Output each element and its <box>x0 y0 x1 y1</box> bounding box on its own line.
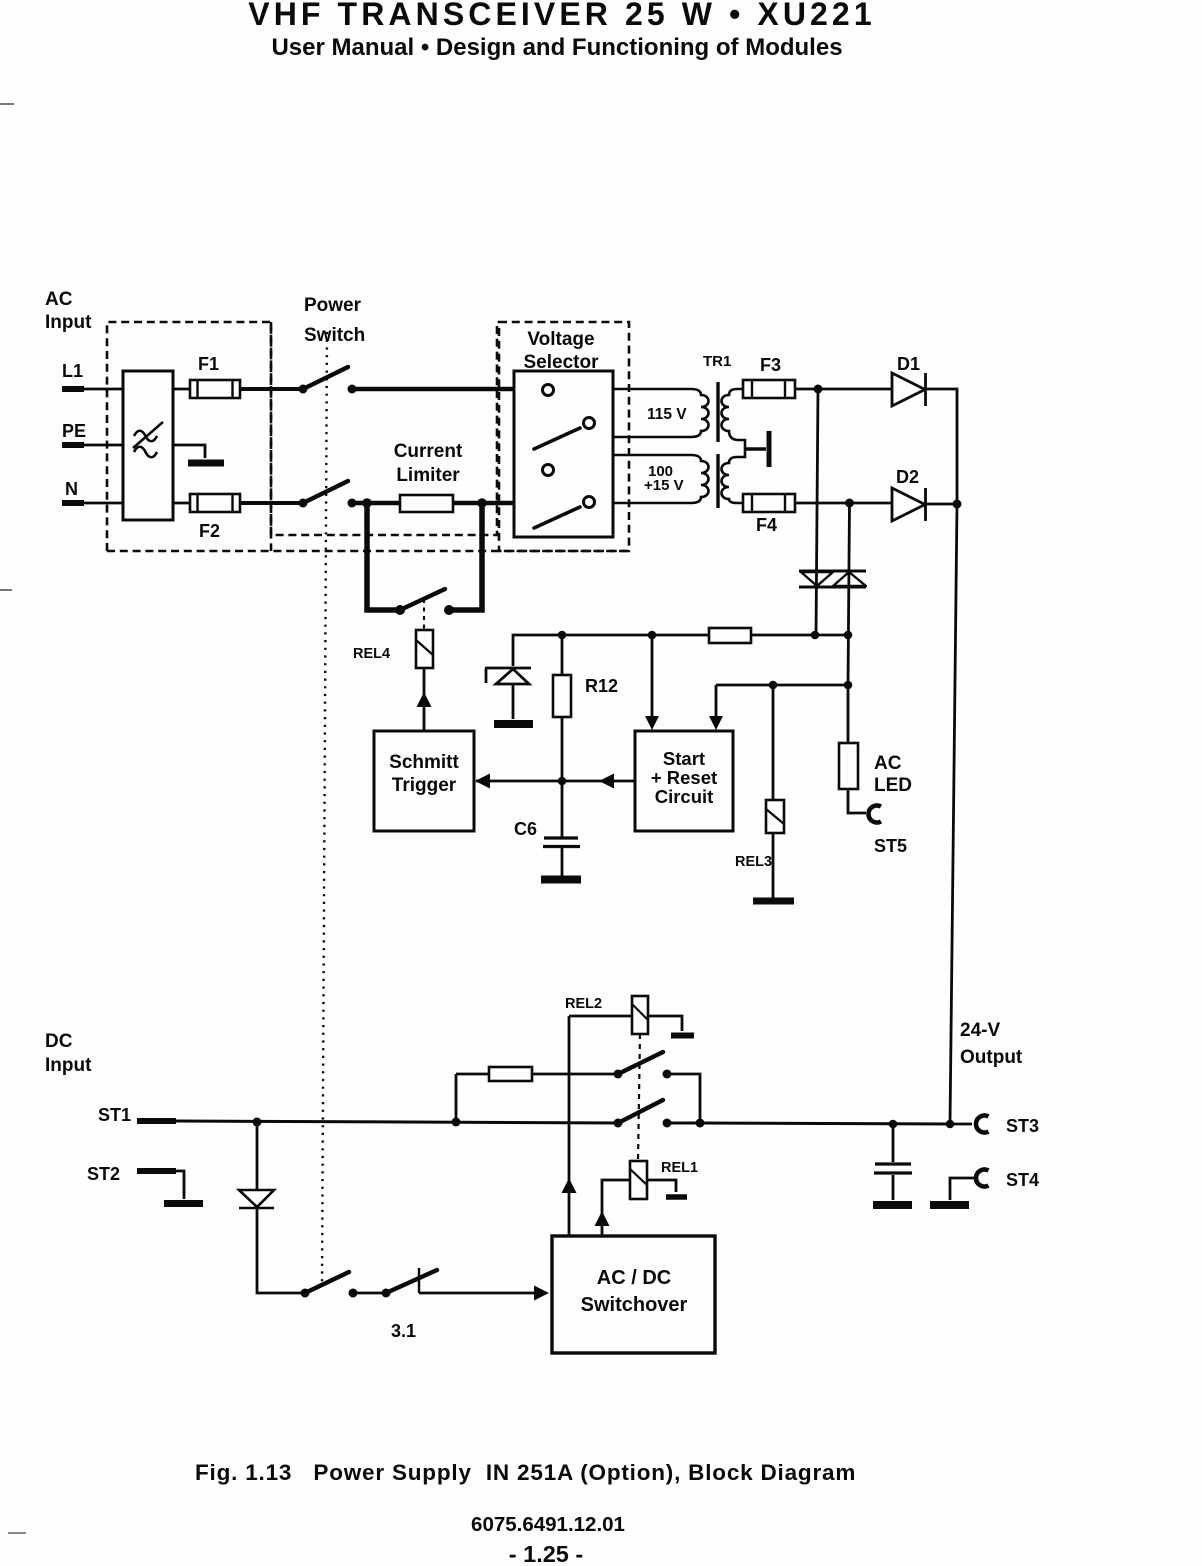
svg-text:115 V: 115 V <box>647 406 687 423</box>
svg-text:+15 V: +15 V <box>644 477 684 494</box>
svg-text:ST4: ST4 <box>1006 1170 1039 1190</box>
svg-text:F3: F3 <box>760 355 781 375</box>
svg-text:Input: Input <box>45 312 92 333</box>
svg-text:Switch: Switch <box>304 325 365 346</box>
svg-text:+ Reset: + Reset <box>651 767 717 788</box>
svg-text:N: N <box>65 479 78 499</box>
svg-text:Output: Output <box>960 1047 1023 1068</box>
svg-text:AC / DC: AC / DC <box>597 1267 671 1289</box>
svg-text:ST2: ST2 <box>87 1164 120 1184</box>
svg-text:Selector: Selector <box>524 352 600 373</box>
svg-text:Switchover: Switchover <box>581 1294 688 1316</box>
svg-text:Circuit: Circuit <box>655 786 714 807</box>
svg-text:ST1: ST1 <box>98 1105 131 1125</box>
svg-text:REL3: REL3 <box>735 854 772 870</box>
svg-text:F1: F1 <box>198 354 219 374</box>
svg-text:ST5: ST5 <box>874 836 907 856</box>
svg-text:Voltage: Voltage <box>527 329 594 350</box>
svg-text:REL2: REL2 <box>565 996 602 1012</box>
svg-text:TR1: TR1 <box>703 353 731 370</box>
svg-text:VHF TRANSCEIVER 25 W • XU221: VHF TRANSCEIVER 25 W • XU221 <box>248 0 875 32</box>
svg-text:AC: AC <box>45 289 73 310</box>
svg-text:6075.6491.12.01: 6075.6491.12.01 <box>471 1513 625 1536</box>
svg-text:24-V: 24-V <box>960 1020 1000 1041</box>
svg-text:DC: DC <box>45 1031 73 1052</box>
svg-text:R12: R12 <box>585 676 618 696</box>
svg-text:REL4: REL4 <box>353 646 390 662</box>
svg-text:Schmitt: Schmitt <box>389 752 459 773</box>
svg-text:D1: D1 <box>897 354 920 374</box>
svg-text:ST3: ST3 <box>1006 1116 1039 1136</box>
svg-text:REL1: REL1 <box>661 1160 698 1176</box>
svg-text:Limiter: Limiter <box>396 465 460 486</box>
svg-text:- 1.25 -: - 1.25 - <box>509 1541 583 1566</box>
svg-text:L1: L1 <box>62 361 83 381</box>
svg-text:User Manual • Design and Funct: User Manual • Design and Functioning of … <box>271 34 842 61</box>
svg-text:D2: D2 <box>896 467 919 487</box>
svg-text:C6: C6 <box>514 819 537 839</box>
svg-text:3.1: 3.1 <box>391 1321 416 1341</box>
svg-text:Start: Start <box>663 748 705 769</box>
svg-text:Trigger: Trigger <box>392 775 457 796</box>
svg-text:PE: PE <box>62 421 86 441</box>
svg-text:Input: Input <box>45 1055 92 1076</box>
svg-text:F4: F4 <box>756 515 777 535</box>
svg-text:AC: AC <box>874 753 902 774</box>
svg-text:Power: Power <box>304 295 362 316</box>
svg-text:F2: F2 <box>199 521 220 541</box>
svg-text:LED: LED <box>874 775 912 796</box>
svg-text:Fig. 1.13 Power Supply IN 2: Fig. 1.13 Power Supply IN 251A (Option),… <box>195 1460 856 1485</box>
svg-text:Current: Current <box>394 441 463 462</box>
